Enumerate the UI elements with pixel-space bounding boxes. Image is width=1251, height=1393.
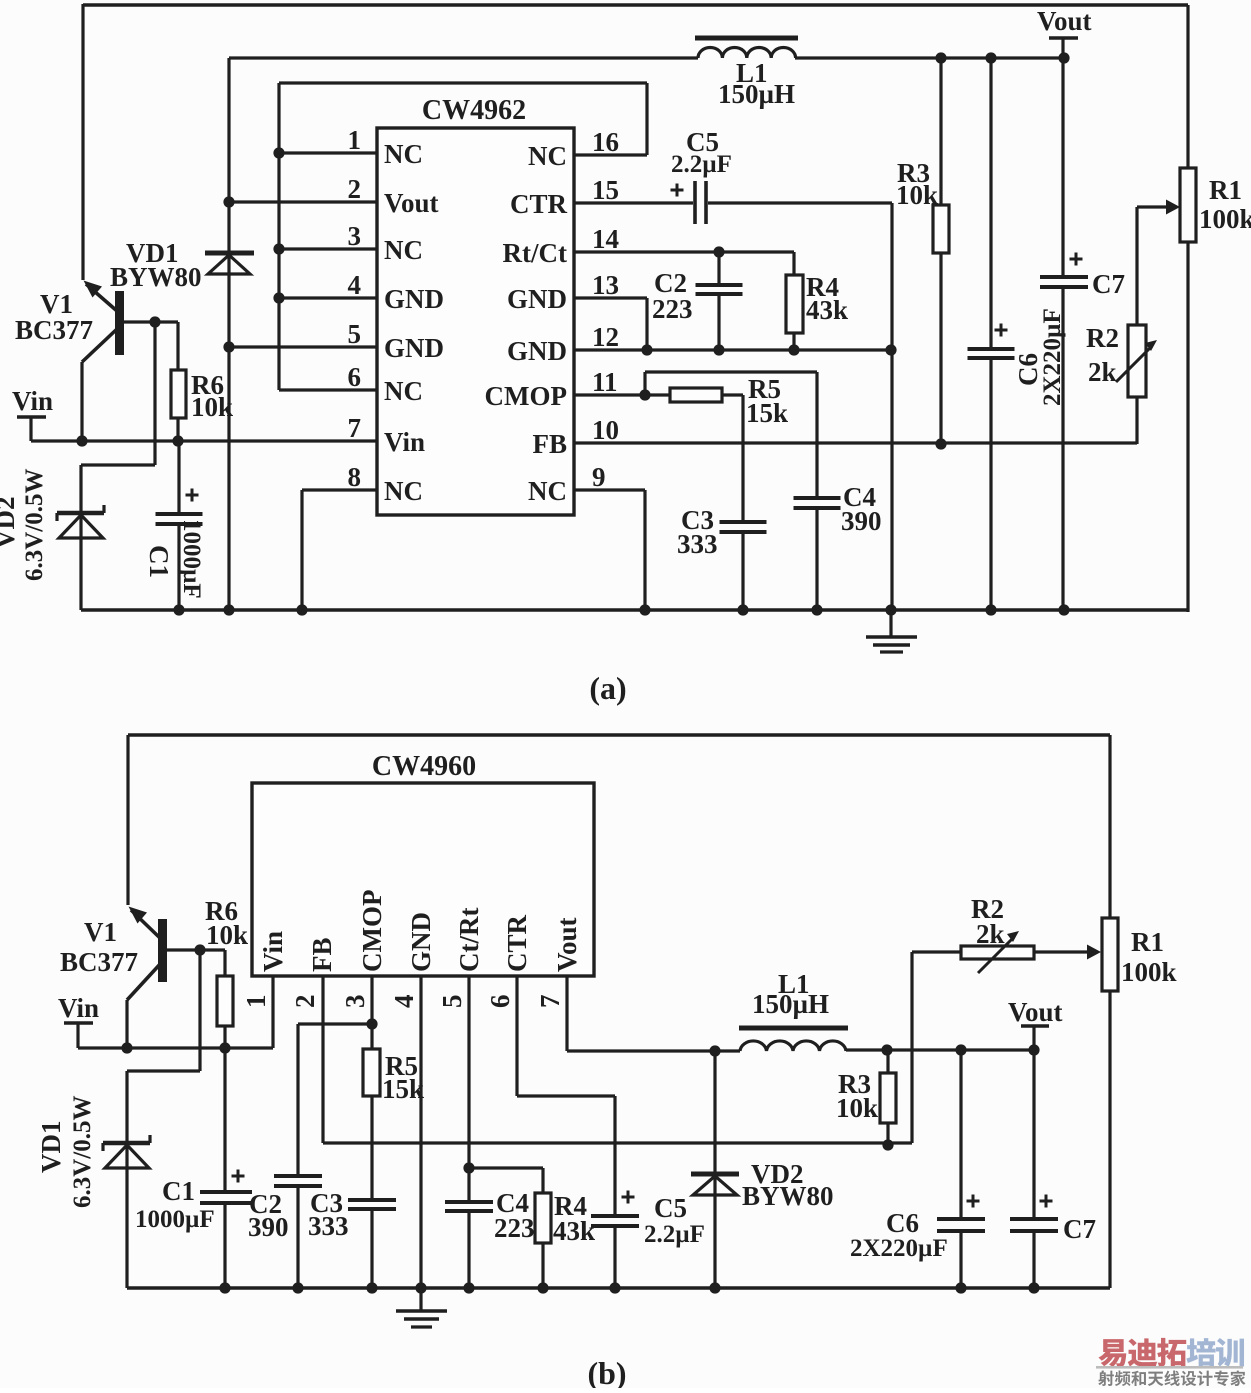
rheostat R2 2k (a): [1116, 325, 1157, 444]
node Vout terminal (b): [1021, 1026, 1049, 1050]
wire top rail (a) from V1 collector to R1 top: [83, 4, 1188, 280]
svg-text:2: 2: [348, 174, 362, 204]
label 2.2uF (a): [671, 151, 732, 178]
pin number 3 (b): [340, 995, 370, 1009]
node Vout terminal (a): [1049, 38, 1078, 58]
label L1 (b): [778, 969, 810, 999]
pin label GND pin13 (a): [507, 284, 567, 314]
wire L1 output (b): [846, 1048, 1034, 1051]
label VD1 (a): [126, 238, 179, 268]
node pin12 junctions (a): [641, 344, 896, 355]
pin number 4 (b): [389, 995, 419, 1009]
svg-text:NC: NC: [384, 376, 423, 406]
pin label GND pin12 (a): [507, 336, 567, 366]
svg-text:C1: C1: [144, 545, 174, 578]
svg-text:14: 14: [592, 224, 619, 254]
svg-text:NC: NC: [384, 476, 423, 506]
pin label CTR pin15 (a): [510, 189, 568, 219]
svg-text:15: 15: [592, 175, 619, 205]
wire pin1 stub (b): [271, 976, 274, 1048]
node Vin junctions (a): [76, 435, 183, 446]
pin label NC pin3 (a): [384, 235, 423, 265]
label 100k R1 (b): [1121, 957, 1177, 987]
pin label CTR pin6 (b): [502, 914, 532, 972]
svg-text:16: 16: [592, 127, 619, 157]
svg-text:10k: 10k: [896, 180, 938, 210]
pin number 11 (a): [592, 367, 618, 397]
svg-text:C1: C1: [162, 1176, 195, 1206]
node C6 top junction (a): [985, 52, 996, 63]
label R5 (a): [748, 374, 781, 404]
pin label CMOP pin11 (a): [485, 381, 567, 411]
pin label GND pin4 (a): [384, 284, 444, 314]
inductor L1 150uH (a): [695, 38, 798, 58]
svg-text:VD2: VD2: [0, 497, 20, 550]
label R2 (a): [1086, 323, 1119, 353]
pin label NC pin16 (a): [528, 141, 567, 171]
svg-text:1000µF: 1000µF: [135, 1206, 215, 1233]
node rail junction x891 (a): [885, 604, 896, 615]
node pin3 junction (a): [273, 243, 284, 254]
svg-text:223: 223: [652, 294, 693, 324]
label Vout (b): [1008, 997, 1063, 1027]
svg-text:4: 4: [389, 995, 419, 1009]
svg-text:NC: NC: [528, 141, 567, 171]
pin label Vin pin1 (b): [258, 931, 288, 972]
svg-text:Vin: Vin: [58, 993, 99, 1023]
pin number 5 (b): [437, 995, 467, 1009]
caption (a): [589, 670, 626, 706]
pin number 10 (a): [592, 415, 619, 445]
node pin3 junction (b): [366, 1018, 377, 1029]
label L1 (a): [736, 58, 768, 88]
node rail junction x229 (a): [223, 604, 234, 615]
node rail junction x961 (b): [955, 1282, 966, 1293]
svg-text:R1: R1: [1131, 927, 1164, 957]
svg-text:3: 3: [340, 995, 370, 1009]
svg-text:FB: FB: [307, 937, 337, 972]
wire pin3 CMOP stub (b): [370, 976, 373, 1024]
node rail junction x991 (a): [985, 604, 996, 615]
node L1 output junctions (b): [881, 1044, 1039, 1055]
svg-text:C5: C5: [654, 1193, 687, 1223]
node R3 bottom junction (a): [935, 438, 946, 449]
resistor R3 10k (b): [880, 1050, 896, 1145]
svg-text:NC: NC: [528, 476, 567, 506]
capacitor C2 223 (a): [696, 252, 743, 350]
svg-text:FB: FB: [532, 429, 567, 459]
wire ground rail (a): [81, 608, 1188, 611]
label C6 (b): [886, 1208, 919, 1238]
label BYW80 (a): [110, 262, 202, 292]
label 333 C3 (b): [308, 1211, 349, 1241]
ground symbol (a): [866, 610, 917, 652]
svg-text:100k: 100k: [1199, 204, 1251, 234]
svg-text:C7: C7: [1063, 1214, 1096, 1244]
label 6.3V/0.5W (b): [69, 1096, 96, 1209]
label 150uH L1 (b): [752, 989, 829, 1019]
wire pin9 (a): [574, 490, 645, 611]
svg-text:6.3V/0.5W: 6.3V/0.5W: [21, 469, 48, 582]
svg-text:CW4962: CW4962: [422, 95, 526, 126]
label 10k R6 (a): [191, 392, 233, 422]
capacitor C1 1000uF (a): [156, 441, 203, 610]
node pin11 junction (a): [639, 389, 650, 400]
transistor V1 BC377 (b): [127, 907, 225, 1049]
label BC377 (a): [15, 315, 93, 345]
pin number 1 (b): [241, 995, 271, 1009]
wire ground rail (b): [127, 1286, 1110, 1289]
node rail junction x615 (b): [609, 1282, 620, 1293]
wire pin10 FB line (a): [574, 441, 1137, 444]
label R5 (b): [385, 1051, 418, 1081]
node rail junction x421 (b): [415, 1282, 426, 1293]
node Vin terminal (a): [17, 417, 46, 441]
svg-text:R2: R2: [1086, 323, 1119, 353]
label C4 (a): [843, 482, 876, 512]
node R3 bottom junction (b): [882, 1139, 893, 1150]
pin label Vout pin7 (b): [552, 917, 582, 972]
capacitor C3 333 (b): [348, 1200, 396, 1288]
svg-text:390: 390: [841, 506, 882, 536]
watermark subtitle shepin he tianxian sheji zhuanjia: [1098, 1370, 1245, 1386]
node rail junction x469 (b): [463, 1282, 474, 1293]
pin label FB pin10 (a): [532, 429, 567, 459]
wire top rail (b): [128, 735, 1110, 905]
label 10k R3 (b): [836, 1093, 878, 1123]
label R1 (a): [1209, 175, 1242, 205]
svg-text:Rt/Ct: Rt/Ct: [503, 238, 567, 268]
pin label FB pin2 (b): [307, 937, 337, 972]
svg-text:GND: GND: [507, 284, 567, 314]
svg-text:NC: NC: [384, 235, 423, 265]
wire pin12 GND line (a): [574, 348, 892, 351]
label Vin (b): [58, 993, 99, 1023]
wire base branch to VD2 (a): [81, 322, 155, 610]
svg-text:333: 333: [677, 529, 718, 559]
svg-text:CTR: CTR: [502, 914, 532, 972]
svg-text:NC: NC: [384, 139, 423, 169]
capacitor C7 (b): [1010, 1050, 1058, 1289]
label 333 C3 (a): [677, 529, 718, 559]
label R3 (a): [897, 158, 930, 188]
pin number 2 (b): [290, 995, 320, 1009]
svg-text:BC377: BC377: [60, 947, 138, 977]
svg-text:10: 10: [592, 415, 619, 445]
capacitor C6 2X220uF (b): [937, 1050, 985, 1289]
capacitor C4 390 (a): [794, 372, 841, 611]
label C4 (b): [496, 1188, 529, 1218]
svg-text:Vout: Vout: [1037, 6, 1092, 36]
node base junction (b): [194, 944, 205, 955]
pin number 6 (a): [348, 362, 362, 392]
label R6 (a): [191, 370, 224, 400]
svg-text:GND: GND: [384, 333, 444, 363]
node pin14 junction (a): [713, 246, 724, 257]
pin label NC pin8 (a): [384, 476, 423, 506]
watermark logo yiditu peixun: [1098, 1338, 1244, 1367]
node rail junction x1064 (a): [1058, 604, 1069, 615]
pin number 6 (b): [485, 995, 515, 1009]
pin number 16 (a): [592, 127, 619, 157]
label VD2 (a): [0, 497, 20, 550]
label 223 C2 (a): [652, 294, 693, 324]
svg-text:Vout: Vout: [552, 917, 582, 972]
node Vout junction (a): [1058, 52, 1069, 63]
label C1 (a): [144, 545, 174, 578]
label V1 (b): [84, 917, 117, 947]
svg-text:150µH: 150µH: [718, 79, 795, 109]
node rail junction x645 (a): [639, 604, 650, 615]
label 1000uF (a): [178, 519, 205, 599]
svg-text:15k: 15k: [382, 1074, 424, 1104]
pin number 9 (a): [592, 462, 606, 492]
label CW4962 (a): [422, 95, 526, 126]
svg-text:10k: 10k: [206, 920, 248, 950]
svg-text:VD1: VD1: [36, 1121, 66, 1174]
capacitor C7 (a): [1040, 58, 1088, 612]
label 390 C2 (b): [248, 1212, 289, 1242]
svg-text:12: 12: [592, 322, 619, 352]
svg-text:7: 7: [535, 995, 565, 1009]
svg-text:2k: 2k: [976, 919, 1005, 949]
label 2.2uF C5 (b): [644, 1221, 705, 1248]
zener diode VD1 6.3V/0.5W (b): [103, 1135, 150, 1168]
wire pin1 (a): [279, 151, 377, 154]
svg-text:2.2µF: 2.2µF: [671, 151, 732, 178]
svg-text:C6: C6: [886, 1208, 919, 1238]
wire pin5 CtRt stub (b): [467, 976, 470, 1201]
svg-text:8: 8: [348, 462, 362, 492]
pin number 8 (a): [348, 462, 362, 492]
label V1 (a): [40, 289, 73, 319]
wire FB line (b): [323, 952, 912, 1143]
svg-text:150µH: 150µH: [752, 989, 829, 1019]
pin label Rt/Ct pin14 (a): [503, 238, 567, 268]
IC CW4960 body (b): [252, 783, 594, 976]
pin number 12 (a): [592, 322, 619, 352]
node rail junction x179 (a): [173, 604, 184, 615]
pin label Ct/Rt pin5 (b): [454, 908, 484, 972]
label 100k R1 (a): [1199, 204, 1251, 234]
svg-text:CMOP: CMOP: [357, 890, 387, 972]
node base junction (a): [149, 316, 160, 327]
svg-text:GND: GND: [507, 336, 567, 366]
zener diode VD2 6.3V/0.5W (a): [57, 505, 104, 538]
pin number 7 (b): [535, 995, 565, 1009]
label C7 (a): [1092, 269, 1125, 299]
resistor R4 43k (a): [786, 252, 803, 350]
svg-text:Ct/Rt: Ct/Rt: [454, 908, 484, 972]
wire pin13 (a): [574, 298, 647, 350]
svg-text:Vin: Vin: [12, 386, 53, 416]
watermark underline: [1096, 1366, 1243, 1369]
wire pin16 loop (a): [574, 83, 647, 155]
label C3 (a): [681, 505, 714, 535]
node Vin terminal (b): [64, 1023, 93, 1048]
svg-text:1: 1: [241, 995, 271, 1009]
label 2X220uF (a): [1039, 308, 1066, 406]
svg-text:Vin: Vin: [384, 427, 425, 457]
svg-text:390: 390: [248, 1212, 289, 1242]
capacitor C6 2X220uF (a): [968, 58, 1015, 612]
pin label NC pin1 (a): [384, 139, 423, 169]
IC CW4962 body (a): [377, 128, 574, 515]
node rail junction x543 (b): [537, 1282, 548, 1293]
svg-text:1000µF: 1000µF: [178, 519, 205, 599]
pin number 5 (a): [348, 319, 362, 349]
resistor R3 10k (a): [933, 58, 949, 444]
pin label GND pin4 (b): [406, 912, 436, 972]
wire pin11 CMOP (a): [574, 393, 671, 396]
label C2 (b): [249, 1189, 282, 1219]
node rail junction x302 (a): [296, 604, 307, 615]
label 43k R4 (b): [553, 1216, 595, 1246]
label C5 (b): [654, 1193, 687, 1223]
label 43k R4 (a): [806, 295, 848, 325]
label R2 (b): [971, 894, 1004, 924]
node rail junction x298 (b): [292, 1282, 303, 1293]
svg-text:V1: V1: [84, 917, 117, 947]
label C7 (b): [1063, 1214, 1096, 1244]
label R4 (b): [554, 1191, 587, 1221]
svg-text:43k: 43k: [553, 1216, 595, 1246]
svg-text:6: 6: [348, 362, 362, 392]
svg-text:BYW80: BYW80: [110, 262, 202, 292]
svg-text:R1: R1: [1209, 175, 1242, 205]
label 2X220uF C6 (b): [850, 1235, 948, 1262]
node R3 top junction (a): [935, 52, 946, 63]
wire pin6 (a): [279, 388, 377, 391]
svg-text:333: 333: [308, 1211, 349, 1241]
svg-text:CTR: CTR: [510, 189, 568, 219]
label Vin (a): [12, 386, 53, 416]
node rail junction x372 (b): [366, 1282, 377, 1293]
caption (b): [587, 1355, 626, 1391]
svg-text:6.3V/0.5W: 6.3V/0.5W: [69, 1096, 96, 1209]
svg-text:BYW80: BYW80: [742, 1181, 834, 1211]
capacitor C5 2.2uF (a): [671, 181, 707, 224]
pin label GND pin5 (a): [384, 333, 444, 363]
ground symbol (b): [396, 1288, 447, 1327]
svg-text:Vin: Vin: [258, 931, 288, 972]
label 2k R2 (a): [1088, 357, 1117, 387]
svg-text:BC377: BC377: [15, 315, 93, 345]
node VD2 top junction (b): [709, 1045, 720, 1056]
resistor R5 15k (a): [670, 388, 743, 402]
wire pin4 (a): [279, 296, 377, 299]
label 6.3V/0.5W (a): [21, 469, 48, 582]
wire NC loop upper (a) pins1/3/4/6 bus: [279, 83, 647, 390]
label 1000uF C1 (b): [135, 1206, 215, 1233]
wire pin6 CTR stub (b): [517, 976, 615, 1096]
svg-text:4: 4: [348, 270, 362, 300]
label 390 C4 (a): [841, 506, 882, 536]
wire Vin line pin7 (a): [31, 439, 377, 442]
node pin1 junction (a): [273, 147, 284, 158]
rheostat R2 2k (b): [912, 931, 1101, 973]
label C2 (a): [654, 268, 687, 298]
wire y58 node from VD1 top to L1 and output node (a): [229, 56, 698, 59]
label C6 (a): [1013, 353, 1043, 386]
svg-text:2: 2: [290, 995, 320, 1009]
node pin2 junction (a): [223, 196, 234, 207]
wire pin4 GND stub (b): [419, 976, 422, 1288]
node rail junction x225 (b): [219, 1282, 230, 1293]
svg-text:13: 13: [592, 270, 619, 300]
wire pin2 Vout (a): [229, 200, 377, 203]
label R3 (b): [838, 1069, 871, 1099]
svg-text:GND: GND: [406, 912, 436, 972]
label BYW80 VD2 (b): [742, 1181, 834, 1211]
node Vin junctions (b): [121, 1042, 230, 1053]
wire pin5 to R4 (b): [469, 1166, 543, 1169]
svg-text:5: 5: [437, 995, 467, 1009]
pin number 14 (a): [592, 224, 619, 254]
label VD1 (b): [36, 1121, 66, 1174]
diode VD2 BYW80 (b): [691, 1051, 739, 1288]
resistor R6 (a): [171, 322, 186, 441]
svg-text:15k: 15k: [746, 398, 788, 428]
pin number 7 (a): [348, 413, 362, 443]
svg-text:1: 1: [348, 125, 362, 155]
label C5 (a): [686, 127, 719, 157]
svg-text:2.2µF: 2.2µF: [644, 1221, 705, 1248]
svg-text:6: 6: [485, 995, 515, 1009]
node rail junction x817 (a): [811, 604, 822, 615]
label BC377 (b): [60, 947, 138, 977]
svg-text:100k: 100k: [1121, 957, 1177, 987]
wire pin2 FB stub (b): [321, 976, 324, 1143]
svg-text:5: 5: [348, 319, 362, 349]
pin number 15 (a): [592, 175, 619, 205]
wire Vin line (b): [78, 1046, 273, 1049]
label VD2 (b): [751, 1159, 804, 1189]
label C1 (b): [162, 1176, 195, 1206]
svg-text:11: 11: [592, 367, 618, 397]
svg-text:C7: C7: [1092, 269, 1125, 299]
svg-text:2k: 2k: [1088, 357, 1117, 387]
node rail junction x1034 (b): [1028, 1282, 1039, 1293]
pin label NC pin6 (a): [384, 376, 423, 406]
wire L1 output to Vout node (a): [795, 56, 1066, 59]
label R1 (b): [1131, 927, 1164, 957]
wire pin8 (a): [302, 490, 377, 610]
label 15k R5 (a): [746, 398, 788, 428]
label R4 (a): [806, 272, 839, 302]
inductor L1 150uH (b): [739, 1028, 848, 1051]
transistor V1 BC377 (a): [82, 281, 178, 442]
svg-text:Vout: Vout: [384, 188, 439, 218]
diode VD1 BYW80 (a): [205, 58, 254, 610]
wire pin3 to C2 (b): [298, 1024, 372, 1176]
capacitor C2 390 (b): [274, 1176, 322, 1288]
capacitor C3 333 (a): [720, 395, 767, 611]
node rail junction x715 (b): [709, 1282, 720, 1293]
svg-text:10k: 10k: [836, 1093, 878, 1123]
svg-text:10k: 10k: [191, 392, 233, 422]
label CW4960 (b): [372, 751, 476, 782]
svg-text:(a): (a): [589, 670, 626, 706]
svg-text:GND: GND: [384, 284, 444, 314]
label 2k R2 (b): [976, 919, 1005, 949]
svg-text:Vout: Vout: [1008, 997, 1063, 1027]
wire pin11 loop over R5 to C4 (a): [645, 372, 817, 395]
svg-text:43k: 43k: [806, 295, 848, 325]
label 223 C4 (b): [494, 1213, 535, 1243]
label Vout (a): [1037, 6, 1092, 36]
svg-text:CMOP: CMOP: [485, 381, 567, 411]
